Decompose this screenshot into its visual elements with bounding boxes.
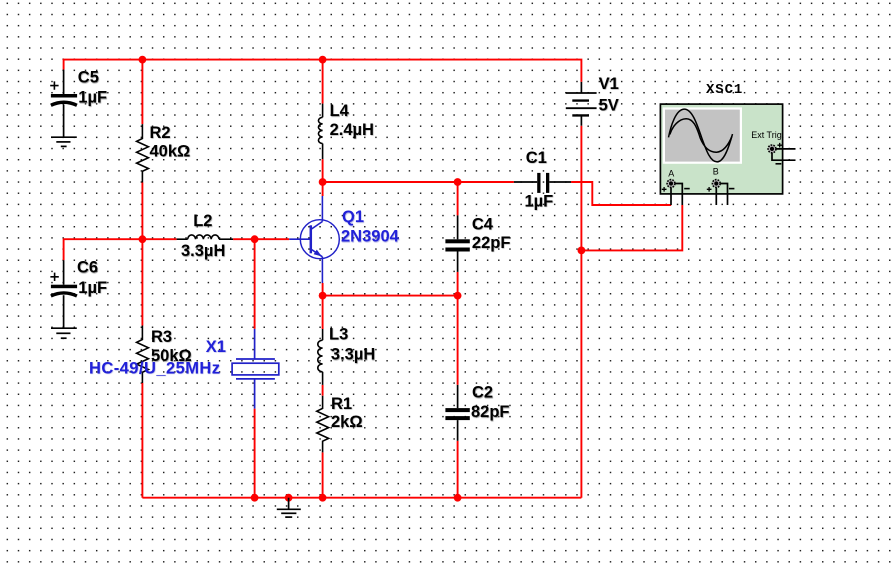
svg-text:C2: C2: [472, 384, 493, 402]
terminal A: [667, 180, 675, 188]
node junction rail R1: [319, 494, 327, 502]
svg-text:L4: L4: [330, 102, 350, 120]
node junction C4 bottom: [454, 292, 462, 300]
node junction top L4: [319, 56, 327, 64]
wire C2 bottom: [457, 441, 459, 498]
wire R2 top: [141, 60, 143, 125]
terminal B: [712, 180, 720, 188]
wire emitter row: [323, 283, 458, 296]
svg-text:Q1: Q1: [342, 208, 364, 226]
svg-text:V1: V1: [599, 75, 619, 93]
svg-text:L2: L2: [193, 212, 212, 230]
capacitor C1: [514, 173, 571, 193]
wire R3 top: [141, 239, 143, 325]
terminal Ext Trig: [768, 145, 776, 153]
wire terminal A plus lead: [670, 187, 672, 205]
wire V1 negative: [580, 126, 582, 498]
terminal A minus sign: [684, 188, 690, 190]
wire VCC top rail: [64, 60, 582, 82]
wire crystal top: [254, 239, 256, 329]
terminal Ext Trig plus sign: [777, 143, 782, 148]
svg-text:3.3µH: 3.3µH: [331, 346, 375, 364]
svg-text:L3: L3: [329, 325, 348, 343]
node junction rail X1: [251, 494, 259, 502]
svg-text:5V: 5V: [599, 96, 619, 114]
node junction top R2: [139, 56, 147, 64]
node junction rail ground: [285, 494, 293, 502]
oscilloscope XSC1: [660, 104, 782, 194]
capacitor C2: [445, 385, 469, 441]
wire R1 bottom: [322, 452, 324, 497]
wire C4 bottom lead: [457, 272, 459, 296]
transistor Q1: [289, 196, 339, 283]
svg-text:3.3µH: 3.3µH: [181, 242, 225, 260]
wire scope A minus to ground: [581, 205, 682, 250]
svg-text:82pF: 82pF: [471, 403, 510, 421]
terminal A plus sign: [662, 187, 667, 192]
svg-text:XSC1: XSC1: [706, 82, 743, 98]
ground under C6: [51, 328, 77, 338]
wire ground bottom rail: [142, 497, 581, 499]
wire R2 bottom: [141, 183, 143, 240]
inductor L3: [318, 329, 323, 385]
node junction base R3: [139, 235, 147, 243]
svg-text:40kΩ: 40kΩ: [150, 142, 191, 160]
svg-text:C4: C4: [472, 216, 494, 234]
capacitor C5: [50, 70, 77, 138]
wire terminal B minus lead: [720, 184, 727, 206]
svg-text:1µF: 1µF: [525, 192, 554, 210]
svg-text:R2: R2: [150, 124, 171, 142]
node junction V1 scope ground: [578, 247, 586, 255]
terminal B plus sign: [707, 187, 712, 192]
inductor L4: [318, 104, 322, 160]
svg-text:C5: C5: [78, 69, 99, 87]
svg-text:R1: R1: [331, 395, 352, 413]
svg-text:2N3904: 2N3904: [341, 228, 400, 246]
battery V1: [566, 82, 597, 126]
node junction emitter: [319, 292, 327, 300]
wire R3 bottom: [141, 383, 143, 498]
capacitor C4: [445, 215, 469, 272]
node junction C4 top: [454, 178, 462, 186]
svg-text:1µF: 1µF: [78, 279, 107, 297]
resistor R2: [137, 124, 149, 182]
wire base rail: [64, 239, 290, 260]
ground main: [277, 498, 301, 517]
node junction base X1: [251, 235, 259, 243]
inductor L2: [177, 235, 234, 239]
ground under C5: [51, 137, 77, 146]
scope waveform B: [670, 119, 732, 153]
wire C4 top lead: [457, 182, 459, 215]
wire Ext Trig lead 2: [772, 153, 796, 160]
wire L3 to R1: [322, 385, 324, 396]
svg-text:B: B: [713, 167, 719, 177]
svg-text:X1: X1: [206, 338, 226, 356]
svg-text:R3: R3: [151, 328, 172, 346]
scope waveform A: [669, 109, 733, 162]
wire collector node: [322, 159, 324, 196]
wire L4 top: [322, 60, 324, 104]
node junction collector L4: [319, 178, 327, 186]
wire L3 top: [322, 296, 324, 329]
wire collector row to C1: [323, 181, 514, 183]
wire Ext Trig lead 1: [776, 148, 796, 150]
node junction rail C2: [454, 494, 462, 502]
crystal X1: [232, 329, 279, 409]
svg-text:2.4µH: 2.4µH: [330, 121, 374, 139]
terminal B minus sign: [729, 188, 735, 190]
wire crystal bottom: [254, 409, 256, 498]
svg-text:C6: C6: [77, 259, 98, 277]
capacitor C6: [50, 260, 77, 328]
svg-text:Ext Trig.: Ext Trig.: [751, 130, 784, 140]
wire terminal B plus lead: [715, 187, 717, 205]
wire terminal A minus lead: [675, 184, 682, 206]
resistor R3: [137, 326, 149, 384]
svg-text:A: A: [668, 168, 674, 178]
wire C2 top: [457, 296, 459, 385]
terminal Ext Trig minus sign: [776, 163, 782, 165]
svg-text:22pF: 22pF: [472, 234, 511, 252]
svg-text:2kΩ: 2kΩ: [331, 413, 363, 431]
svg-text:C1: C1: [526, 149, 547, 167]
wire C1 output to scope A: [571, 182, 671, 205]
svg-text:1µF: 1µF: [78, 89, 107, 107]
svg-text:HC-49/U_25MHz: HC-49/U_25MHz: [89, 359, 220, 377]
resistor R1: [317, 396, 329, 453]
